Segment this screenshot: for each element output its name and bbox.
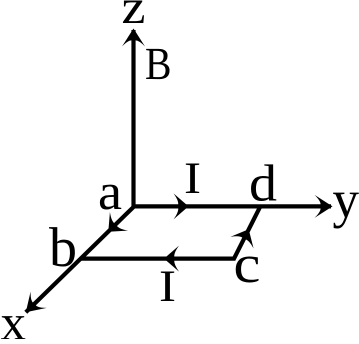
label d [251, 164, 276, 201]
x-axis arrowhead [18, 291, 47, 320]
x-axis [26, 207, 134, 313]
label y [333, 193, 359, 229]
label B [146, 49, 169, 79]
label c [236, 257, 259, 283]
label b [49, 227, 75, 266]
current arrow c-b bottom segment [164, 246, 179, 272]
label I bottom [161, 272, 174, 301]
wire b-c-d segments [81, 206, 260, 258]
z-axis [131, 30, 135, 206]
current arrow a-d top segment [174, 193, 189, 219]
y-axis arrowhead [315, 195, 333, 218]
label I top [186, 164, 199, 193]
current arrow c-d right segment [230, 223, 260, 248]
current arrow a-b left segment [99, 212, 128, 241]
label a [100, 185, 121, 210]
z-axis arrowhead [122, 29, 145, 47]
label z [123, 1, 144, 23]
label x [1, 316, 25, 339]
y-axis [134, 204, 332, 208]
